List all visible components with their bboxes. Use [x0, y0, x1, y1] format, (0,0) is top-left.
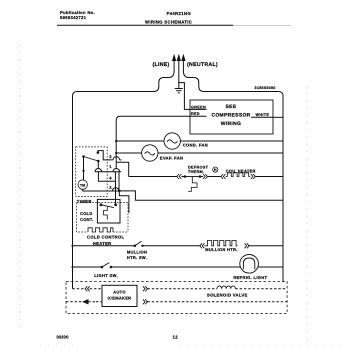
wire: mullion row from left bus	[73, 245, 135, 247]
svg-text:REFRIG. LIGHT: REFRIG. LIGHT	[233, 275, 267, 280]
wire: GREEN lead from ground stem to compressor box	[179, 83, 190, 110]
resistor: mullion heater	[204, 240, 237, 245]
wire thermostat to connector	[200, 176, 203, 178]
plug prong arrow ground	[177, 56, 180, 83]
svg-text:12: 12	[173, 335, 179, 340]
node on timer motor wire	[82, 170, 84, 172]
connector chevrons icemaker row1	[85, 286, 90, 291]
dashed wire to icemaker box	[90, 288, 102, 290]
ground symbol	[175, 89, 183, 93]
terminal 1 line	[95, 171, 121, 173]
timer switch blade A-C	[84, 157, 99, 162]
motor: evaporator fan	[142, 145, 158, 161]
wire: cond fan row right to bus	[180, 140, 283, 142]
WHITE terminal stub inside box	[251, 116, 273, 118]
RED terminal stub inside box	[190, 115, 207, 117]
wire: light row from left bus	[73, 266, 102, 268]
GREEN terminal stub inside box	[190, 108, 207, 110]
connector chevrons into mullion heater	[200, 243, 205, 248]
connector chevrons out of mullion heater	[245, 243, 250, 248]
wire lamp to right bus	[258, 266, 283, 268]
svg-text:RED: RED	[191, 112, 200, 116]
plug prong arrow LINE	[173, 56, 176, 72]
svg-text:COND. FAN: COND. FAN	[183, 143, 208, 148]
wire: junction to row at y200	[119, 191, 283, 200]
timer wire B to terminal 2	[98, 151, 113, 160]
label COLD CONT.	[80, 211, 94, 222]
wire mullion switch to connector	[143, 245, 200, 247]
wire: evap fan row right to bus	[158, 152, 283, 154]
connector chevrons out of icemaker row2	[143, 299, 148, 304]
compressor box	[190, 100, 273, 134]
wire: evap fan row left	[116, 152, 141, 154]
node: light row tap on left bus	[71, 266, 73, 268]
svg-text:F44R21NG: F44R21NG	[167, 11, 192, 16]
mullion heater switch	[134, 241, 144, 247]
light switch	[101, 263, 113, 269]
wire: cold control feed	[115, 181, 117, 205]
timer dashed box	[76, 147, 108, 197]
circled H heater symbol	[213, 167, 218, 172]
lamp: refrigerator light	[240, 254, 259, 273]
timer contact B	[97, 151, 100, 154]
wire coil heater to right bus	[255, 176, 283, 178]
svg-text:H: H	[214, 168, 217, 172]
wire: LINE lead-in S-curve to left bus	[73, 71, 175, 289]
connector chevrons into defrost thermostat	[177, 174, 182, 179]
defrost thermostat contacts and wire	[184, 175, 202, 178]
cold control switch box	[97, 199, 120, 223]
dashed wire row2 into box	[96, 301, 102, 303]
wire: WHITE to right bus	[273, 116, 283, 118]
cold control bellows element	[104, 207, 108, 220]
label AUTO ICEMAKER	[108, 289, 132, 300]
icemaker feed dashed wire row 1	[73, 288, 86, 290]
scan artifact dotted left margin	[19, 45, 21, 330]
header rule	[57, 24, 233, 26]
connector chevrons out of thermostat	[203, 174, 208, 179]
svg-text:TM: TM	[80, 183, 86, 187]
terminal 1 connector bump right	[113, 169, 120, 172]
svg-text:08/00: 08/00	[57, 335, 70, 340]
wire: RED from compressor box to center bus	[116, 116, 190, 153]
dashed wire row2 to box edge	[148, 301, 288, 303]
svg-text:WIRING: WIRING	[221, 121, 241, 127]
icemaker row2 dashed wire from box edge	[66, 301, 83, 303]
wire stub connector to thermostat	[181, 176, 184, 178]
node: terminal 3 junction	[118, 190, 121, 193]
defrost thermostat sensing element	[188, 177, 197, 192]
text SEE COMPRESSOR WIRING	[211, 104, 250, 127]
wire: cond fan row left	[116, 140, 164, 142]
svg-text:MULLION: MULLION	[127, 249, 147, 254]
node: mullion row tap on left bus	[71, 245, 73, 247]
svg-text:HTR. SW.: HTR. SW.	[127, 255, 147, 260]
svg-text:318003000: 318003000	[255, 86, 276, 90]
connector chevrons into coil heater	[221, 174, 226, 179]
svg-text:WHITE: WHITE	[256, 113, 270, 117]
wire: terminal 1 to defrost row	[116, 162, 129, 176]
arrow connector icemaker row2	[83, 300, 96, 304]
svg-text:2: 2	[109, 154, 112, 159]
svg-text:SOLENOID VALVE: SOLENOID VALVE	[207, 292, 248, 297]
node: condenser fan tap	[115, 140, 117, 142]
timer contact A	[82, 155, 85, 158]
wire into coil heater connector	[208, 176, 221, 178]
svg-text:HEATER: HEATER	[93, 241, 112, 246]
svg-text:3: 3	[109, 185, 112, 190]
resistor: defrost coil heater	[226, 173, 251, 177]
svg-text:COLD: COLD	[80, 211, 93, 216]
svg-text:COMPRESSOR: COMPRESSOR	[211, 113, 250, 119]
terminal 2 line stub	[120, 159, 122, 161]
label DEFROST THERM.	[188, 166, 209, 175]
plug prong arrow NEUTRAL	[182, 56, 185, 72]
coil: solenoid valve	[217, 286, 235, 289]
label MULLION HTR. SW.	[127, 249, 147, 260]
timer motor TM	[78, 180, 87, 189]
wire: defrost row from riser to connector	[129, 176, 177, 178]
wire: NEUTRAL lead-in S-curve to right bus	[183, 71, 283, 282]
svg-text:SEE: SEE	[226, 104, 237, 110]
node: evap fan tap	[115, 152, 117, 154]
scan artifact bottom dots	[40, 345, 348, 347]
svg-text:4: 4	[109, 176, 112, 181]
cold control blade	[101, 205, 114, 208]
auto icemaker box	[102, 285, 137, 306]
svg-text:AUTO: AUTO	[113, 289, 125, 294]
svg-text:1: 1	[109, 164, 112, 169]
svg-text:DEFROST: DEFROST	[188, 166, 209, 170]
wire light switch to lamp	[111, 266, 240, 268]
cold control dashed box	[77, 203, 128, 232]
dashed wire row1 to box edge	[235, 288, 287, 290]
dashed wire row1 to solenoid	[148, 288, 218, 290]
timer wire C down to terminal 1 connector	[97, 161, 99, 169]
ground stem	[178, 82, 180, 88]
header rule faint extension	[233, 24, 291, 26]
svg-text:TIMER: TIMER	[77, 199, 92, 204]
connector chevrons out of icemaker row1	[143, 286, 148, 291]
resistor: cold control heater	[88, 228, 113, 232]
svg-text:THERM.: THERM.	[188, 170, 204, 174]
wire: terminal 1 bump down to junction	[118, 172, 120, 191]
center bus lower segment to terminal 2 connector	[115, 153, 117, 168]
svg-text:5995342721: 5995342721	[60, 15, 87, 20]
terminal 3 connector bump	[112, 188, 118, 191]
wire: junction down to cold control heater loop	[119, 191, 129, 213]
icemaker dashed enclosure box	[66, 281, 287, 313]
svg-text:MULLION HTR.: MULLION HTR.	[205, 247, 237, 252]
terminal 1 connector bump left	[95, 169, 102, 172]
svg-text:EVAP. FAN: EVAP. FAN	[160, 156, 183, 161]
timer contact C	[97, 160, 100, 163]
svg-text:(NEUTRAL): (NEUTRAL)	[187, 62, 218, 68]
svg-text:LIGHT SW.: LIGHT SW.	[94, 273, 118, 278]
timer motor wire to terminal 3 line	[83, 189, 120, 191]
svg-text:COLD CONTROL: COLD CONTROL	[87, 235, 124, 240]
timer wire A down to motor	[83, 157, 85, 181]
svg-text:(LINE): (LINE)	[153, 62, 170, 68]
cold control contact left	[100, 203, 103, 206]
wire mullion heater to right bus	[249, 245, 283, 247]
svg-text:GREEN: GREEN	[191, 105, 206, 109]
svg-text:WIRING SCHEMATIC: WIRING SCHEMATIC	[145, 19, 192, 24]
connector chevrons out of coil heater	[251, 174, 256, 179]
cold control contact right	[114, 203, 117, 206]
terminal 4 link	[98, 172, 115, 181]
terminal 2 connector bump	[113, 157, 120, 160]
motor: condenser fan	[164, 133, 180, 149]
svg-text:ICEMAKER: ICEMAKER	[108, 295, 132, 300]
svg-text:CONT.: CONT.	[80, 217, 94, 222]
header: publication number text	[60, 10, 95, 20]
scan artifact dotted right margin	[306, 86, 309, 345]
